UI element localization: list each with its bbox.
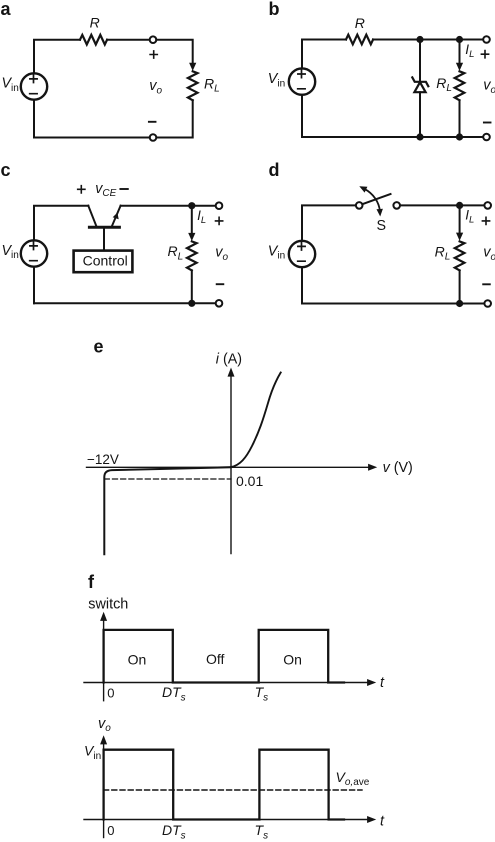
junction dot zener top (b) bbox=[416, 36, 423, 43]
label plus vCE (c) bbox=[78, 186, 85, 193]
junction dot RL top (b) bbox=[456, 36, 463, 43]
svg-text:On: On bbox=[283, 651, 302, 667]
terminal bottom (c) bbox=[216, 300, 223, 307]
svg-text:RL: RL bbox=[168, 243, 184, 262]
svg-text:Vin: Vin bbox=[84, 743, 101, 762]
wire: zener branch top (b) bbox=[419, 40, 421, 82]
svg-text:switch: switch bbox=[88, 597, 128, 613]
voltage source Vin (b) bbox=[289, 68, 315, 94]
svg-text:Off: Off bbox=[206, 651, 225, 667]
node: output terminal bottom (a) bbox=[150, 134, 157, 141]
svg-text:Vin: Vin bbox=[268, 243, 285, 261]
label minus vCE (c) bbox=[120, 188, 127, 190]
resistor R (a) bbox=[80, 35, 107, 45]
junction dot RL bottom (b) bbox=[456, 133, 463, 140]
svg-text:RL: RL bbox=[436, 75, 452, 94]
label minus output (d) bbox=[483, 283, 490, 285]
svg-text:RL: RL bbox=[204, 75, 220, 94]
terminal bottom (b) bbox=[483, 134, 490, 141]
svg-text:b: b bbox=[269, 0, 280, 19]
load resistor RL (c) bbox=[187, 241, 197, 270]
voltage source Vin (a) bbox=[21, 73, 47, 99]
load resistor RL (a) bbox=[188, 71, 198, 100]
dashed level 0.01 (e) bbox=[104, 478, 231, 480]
svg-text:On: On bbox=[128, 651, 147, 667]
v axis (e) bbox=[87, 464, 378, 471]
junction dot bottom (c) bbox=[188, 300, 195, 307]
svg-text:IL: IL bbox=[465, 208, 474, 226]
wire: bottom segment (d) bbox=[302, 303, 484, 305]
label plus output (b) bbox=[481, 51, 488, 58]
label plus output (a) bbox=[150, 51, 157, 58]
horizontal axis t (f1) bbox=[84, 679, 376, 686]
wire: left rail bottom (a) bbox=[33, 100, 35, 138]
svg-text:S: S bbox=[377, 218, 387, 234]
junction dot zener bottom (b) bbox=[416, 133, 423, 140]
svg-text:v (V): v (V) bbox=[383, 460, 413, 476]
wire: top segment to node (a) bbox=[107, 39, 150, 41]
svg-text:vo: vo bbox=[215, 245, 228, 263]
i axis (e) bbox=[228, 368, 235, 554]
zener diode D1 (b) bbox=[412, 77, 428, 92]
svg-text:vo: vo bbox=[483, 245, 495, 263]
svg-text:f: f bbox=[88, 572, 95, 592]
svg-text:Ts: Ts bbox=[255, 822, 269, 841]
wire: RL bottom lead (b) bbox=[459, 100, 461, 137]
wire: left rail top (d) bbox=[302, 205, 356, 240]
switch waveform (f1) bbox=[104, 630, 344, 683]
svg-text:vo: vo bbox=[483, 78, 495, 96]
label minus output (c) bbox=[217, 283, 224, 285]
junction dot bottom (d) bbox=[456, 300, 463, 307]
wire: bottom segment (c) bbox=[34, 302, 216, 304]
transistor Q1 (c) bbox=[88, 206, 120, 250]
svg-text:IL: IL bbox=[197, 208, 206, 226]
svg-text:c: c bbox=[1, 160, 11, 180]
svg-text:t: t bbox=[380, 675, 385, 691]
svg-text:e: e bbox=[94, 337, 104, 357]
wire: top segment node to right rail (a) bbox=[156, 40, 192, 64]
svg-text:0.01: 0.01 bbox=[236, 473, 263, 489]
wire: bottom segment (a) bbox=[34, 137, 150, 139]
wire: top segment to terminal (b) bbox=[373, 39, 483, 41]
terminal top (c) bbox=[216, 202, 223, 209]
junction dot top (d) bbox=[456, 202, 463, 209]
load resistor RL (b) bbox=[455, 71, 465, 100]
wire: left rail top (a) bbox=[34, 40, 80, 74]
wire: left rail top (c) bbox=[34, 206, 88, 241]
wire: top segment right (c) bbox=[121, 205, 216, 207]
svg-text:DTs: DTs bbox=[162, 684, 186, 703]
diode reverse curve and breakdown (e) bbox=[104, 467, 231, 554]
switch right contact (d) bbox=[393, 202, 400, 209]
control block (c) bbox=[74, 251, 133, 273]
wire: left rail bottom (c) bbox=[33, 267, 35, 304]
horizontal axis t (f2) bbox=[84, 816, 376, 823]
wire: left rail bottom (b) bbox=[301, 95, 303, 137]
svg-text:vo: vo bbox=[149, 78, 162, 96]
svg-text:Vo,ave: Vo,ave bbox=[336, 769, 370, 788]
vo waveform (f2) bbox=[104, 750, 344, 820]
wire: bottom segment (b) bbox=[302, 136, 483, 138]
current arrowhead into RL (a) bbox=[189, 63, 196, 71]
load resistor RL (d) bbox=[455, 241, 465, 270]
label minus output (a) bbox=[149, 121, 156, 123]
node: output terminal top (a) bbox=[150, 36, 157, 43]
svg-text:−12V: −12V bbox=[87, 452, 119, 467]
svg-text:Control: Control bbox=[83, 253, 128, 269]
terminal top (b) bbox=[483, 36, 490, 43]
svg-text:i (A): i (A) bbox=[216, 351, 242, 367]
svg-text:0: 0 bbox=[107, 685, 114, 700]
wire: left rail top (b) bbox=[302, 40, 346, 69]
dashed average level (f2) bbox=[104, 789, 362, 791]
wire: right rail bottom (a) bbox=[156, 100, 192, 137]
svg-text:Vin: Vin bbox=[268, 71, 285, 89]
terminal bottom (d) bbox=[484, 300, 491, 307]
wire: RL bottom lead (d) bbox=[459, 270, 461, 303]
label plus output (d) bbox=[482, 217, 489, 224]
resistor R (b) bbox=[346, 35, 373, 45]
svg-text:a: a bbox=[1, 0, 12, 19]
terminal top (d) bbox=[484, 202, 491, 209]
svg-text:d: d bbox=[269, 160, 280, 180]
switch left contact (d) bbox=[356, 202, 363, 209]
wire: zener branch bottom (b) bbox=[419, 92, 421, 137]
wire + current arrow IL (d) bbox=[459, 205, 461, 233]
svg-text:Vin: Vin bbox=[2, 76, 19, 94]
svg-text:0: 0 bbox=[107, 823, 114, 838]
wire: RL bottom lead (c) bbox=[191, 270, 193, 303]
diode forward curve (e) bbox=[231, 373, 281, 468]
wire + current arrow IL (b) bbox=[459, 40, 461, 64]
vertical axis (f1) bbox=[100, 612, 107, 701]
svg-text:R: R bbox=[355, 15, 365, 31]
label plus output (c) bbox=[216, 217, 223, 224]
svg-text:RL: RL bbox=[435, 244, 451, 263]
label minus output (b) bbox=[484, 122, 491, 124]
svg-text:Vin: Vin bbox=[2, 243, 19, 261]
wire + current arrow IL (c) bbox=[191, 206, 193, 234]
svg-text:DTs: DTs bbox=[162, 822, 186, 841]
svg-text:vo: vo bbox=[98, 716, 111, 734]
voltage source Vin (c) bbox=[21, 240, 47, 266]
junction dot top (c) bbox=[188, 202, 195, 209]
wire: left rail bottom (d) bbox=[301, 267, 303, 303]
vertical axis (f2) bbox=[100, 735, 107, 837]
svg-text:Ts: Ts bbox=[255, 684, 269, 703]
svg-text:t: t bbox=[380, 813, 385, 829]
svg-text:vCE: vCE bbox=[95, 181, 116, 199]
wire: top segment right (d) bbox=[400, 204, 484, 206]
svg-text:R: R bbox=[90, 15, 100, 31]
voltage source Vin (d) bbox=[289, 241, 315, 267]
svg-text:IL: IL bbox=[465, 42, 474, 60]
switch toggle arc with arrowheads (d) bbox=[359, 186, 383, 216]
switch blade S (d) bbox=[362, 194, 390, 204]
